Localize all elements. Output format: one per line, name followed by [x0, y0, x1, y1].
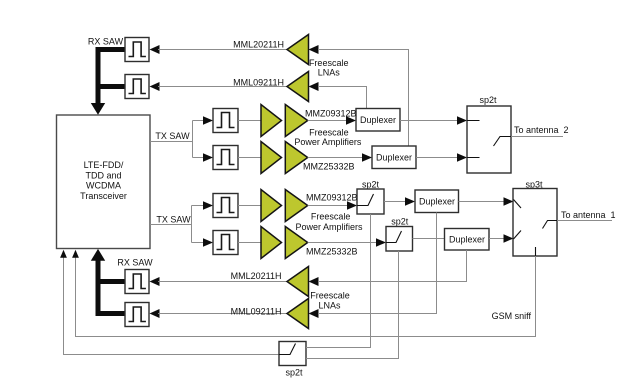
wire LNA4 output to FL8 [150, 309, 288, 318]
LNA U9 MML09211H (bottom) [231, 299, 319, 329]
svg-text:MMZ25332B: MMZ25332B [306, 246, 358, 256]
SAW filter FL8 (RX bottom 2) [125, 303, 149, 327]
LNA U3 MML09211H [233, 72, 318, 102]
power amplifier U7 MMZ25332B (row4 two stages) [261, 227, 358, 259]
wire to antenna 1 [557, 210, 616, 221]
svg-text:sp2t: sp2t [391, 217, 409, 227]
wire TX feed 1 from transceiver with split [150, 116, 213, 161]
LNA U8 MML20211H (bottom) [231, 267, 319, 297]
wire duplexer4 RX drop to LNA3 input [318, 250, 467, 282]
wire S2 to duplexer3 [384, 197, 415, 205]
svg-text:Transceiver: Transceiver [80, 191, 127, 201]
duplexer Z4 (band 4) [445, 229, 490, 251]
wire LNA3 output to FL7 [150, 277, 288, 286]
wire duplexer2 to antenna sp2t in2 [416, 153, 467, 161]
switch S5 sp2t (GSM sniff select) [279, 342, 306, 378]
wire FL6 to PA row4 [238, 242, 261, 244]
transceiver U1 LTE-FDD/TDD and WCDMA Transceiver [57, 115, 151, 249]
svg-text:MML09211H: MML09211H [233, 77, 284, 87]
node Freescale LNAs label (bottom) [310, 290, 350, 310]
svg-text:MML09211H: MML09211H [231, 307, 282, 317]
wire thick RX bus top to transceiver [91, 50, 125, 115]
svg-text:LNAs: LNAs [318, 300, 341, 310]
svg-text:TX SAW: TX SAW [155, 131, 190, 141]
svg-text:MMZ09312B: MMZ09312B [305, 109, 357, 119]
wire FL4 to PA row2 [238, 157, 261, 159]
switch S4 sp3t (antenna 1) [513, 180, 557, 256]
svg-text:Power Amplifiers: Power Amplifiers [295, 222, 363, 232]
svg-text:sp2t: sp2t [362, 179, 380, 189]
svg-text:MMZ09312B: MMZ09312B [306, 192, 358, 202]
wire duplexer4 to sp3t in2 [489, 234, 514, 242]
wire PA row2 to duplexer2 [308, 153, 372, 161]
svg-text:Freescale: Freescale [311, 212, 351, 222]
wire duplexer3 to sp3t in1 [459, 197, 514, 205]
node Freescale Power Amplifiers label (top) [294, 127, 362, 147]
power amplifier U4 MMZ09312B (row1 two stages) [261, 105, 357, 137]
svg-text:LNAs: LNAs [318, 68, 341, 78]
wire LNA1 output to FL1 [150, 45, 288, 54]
duplexer Z1 (band 1) [356, 109, 400, 132]
svg-text:To antenna 1: To antenna 1 [561, 210, 616, 220]
wire FL5 to PA row3 [238, 205, 261, 207]
svg-text:Freescale: Freescale [309, 58, 349, 68]
wire LNA2 output to FL2 [150, 82, 288, 91]
svg-text:Duplexer: Duplexer [360, 115, 396, 125]
duplexer Z3 (band 3) [415, 190, 459, 213]
svg-text:Power Amplifiers: Power Amplifiers [294, 137, 362, 147]
svg-text:MMZ25332B: MMZ25332B [303, 161, 355, 171]
wire thick RX bus bottom to transceiver [91, 249, 125, 314]
switch S1 sp2t (antenna 2) [467, 95, 511, 173]
power amplifier U6 MMZ09312B (row3 two stages) [261, 190, 358, 222]
svg-text:WCDMA: WCDMA [86, 181, 121, 191]
svg-text:sp2t: sp2t [285, 367, 303, 377]
svg-text:MML20211H: MML20211H [233, 39, 284, 49]
LNA U2 MML20211H [233, 35, 318, 65]
wire duplexer1 RX riser to LNA2 input [318, 87, 367, 109]
svg-text:Duplexer: Duplexer [449, 234, 485, 244]
svg-text:Freescale: Freescale [309, 127, 349, 137]
switch S3 sp2t (TX row4) [386, 217, 413, 251]
SAW filter FL3 (TX row 1) [213, 109, 238, 133]
svg-text:Duplexer: Duplexer [376, 153, 412, 163]
wire PA row3 to switch S2 [308, 201, 357, 209]
wire TX feed 2 from transceiver with split [150, 201, 213, 246]
wire to antenna 2 [511, 125, 569, 137]
wire transceiver to bottom sp2t input [60, 250, 279, 355]
wire S3 to duplexer4 [413, 238, 445, 240]
svg-text:TX SAW: TX SAW [156, 215, 191, 225]
SAW filter FL6 (TX row 4) [213, 231, 238, 255]
switch S2 sp2t (TX row3) [357, 179, 384, 214]
svg-text:MML20211H: MML20211H [231, 271, 282, 281]
SAW filter FL4 (TX row 2) [213, 146, 238, 170]
wire GSM sniff path sp3t to transceiver [72, 250, 535, 337]
wire S5 to S3 bottom port [306, 251, 399, 359]
svg-text:sp2t: sp2t [479, 95, 497, 105]
svg-text:GSM sniff: GSM sniff [492, 311, 532, 321]
node Freescale LNAs label (top) [309, 58, 349, 78]
wire duplexer3 RX drop to LNA4 input [318, 213, 437, 314]
power amplifier U5 MMZ25332B (row2 two stages) [261, 142, 355, 174]
SAW filter FL5 (TX row 3) [213, 194, 238, 218]
svg-text:Duplexer: Duplexer [419, 197, 455, 207]
svg-text:RX SAW: RX SAW [117, 258, 153, 268]
wire FL3 to PA row1 [238, 120, 261, 122]
wire duplexer1 to antenna sp2t in1 [400, 116, 467, 124]
wire PA row4 to switch S3 [308, 238, 386, 246]
SAW filter FL1 (RX top 1) [125, 38, 149, 62]
svg-text:LTE-FDD/: LTE-FDD/ [84, 160, 124, 170]
SAW filter FL2 (RX top 2) [125, 75, 149, 99]
svg-text:Freescale: Freescale [310, 290, 350, 300]
wire PA row1 to duplexer1 [308, 116, 356, 124]
SAW filter FL7 (RX bottom 1) [125, 270, 149, 294]
svg-text:RX SAW: RX SAW [88, 37, 124, 47]
node Freescale Power Amplifiers label (middle) [295, 212, 363, 232]
wire duplexer2 ANT-RX riser to LNA1 input [318, 50, 409, 147]
duplexer Z2 (band 2) [372, 146, 416, 169]
wire S5 to S2 bottom port [306, 214, 371, 348]
svg-text:To antenna 2: To antenna 2 [514, 125, 569, 135]
svg-text:TDD and: TDD and [85, 170, 121, 180]
